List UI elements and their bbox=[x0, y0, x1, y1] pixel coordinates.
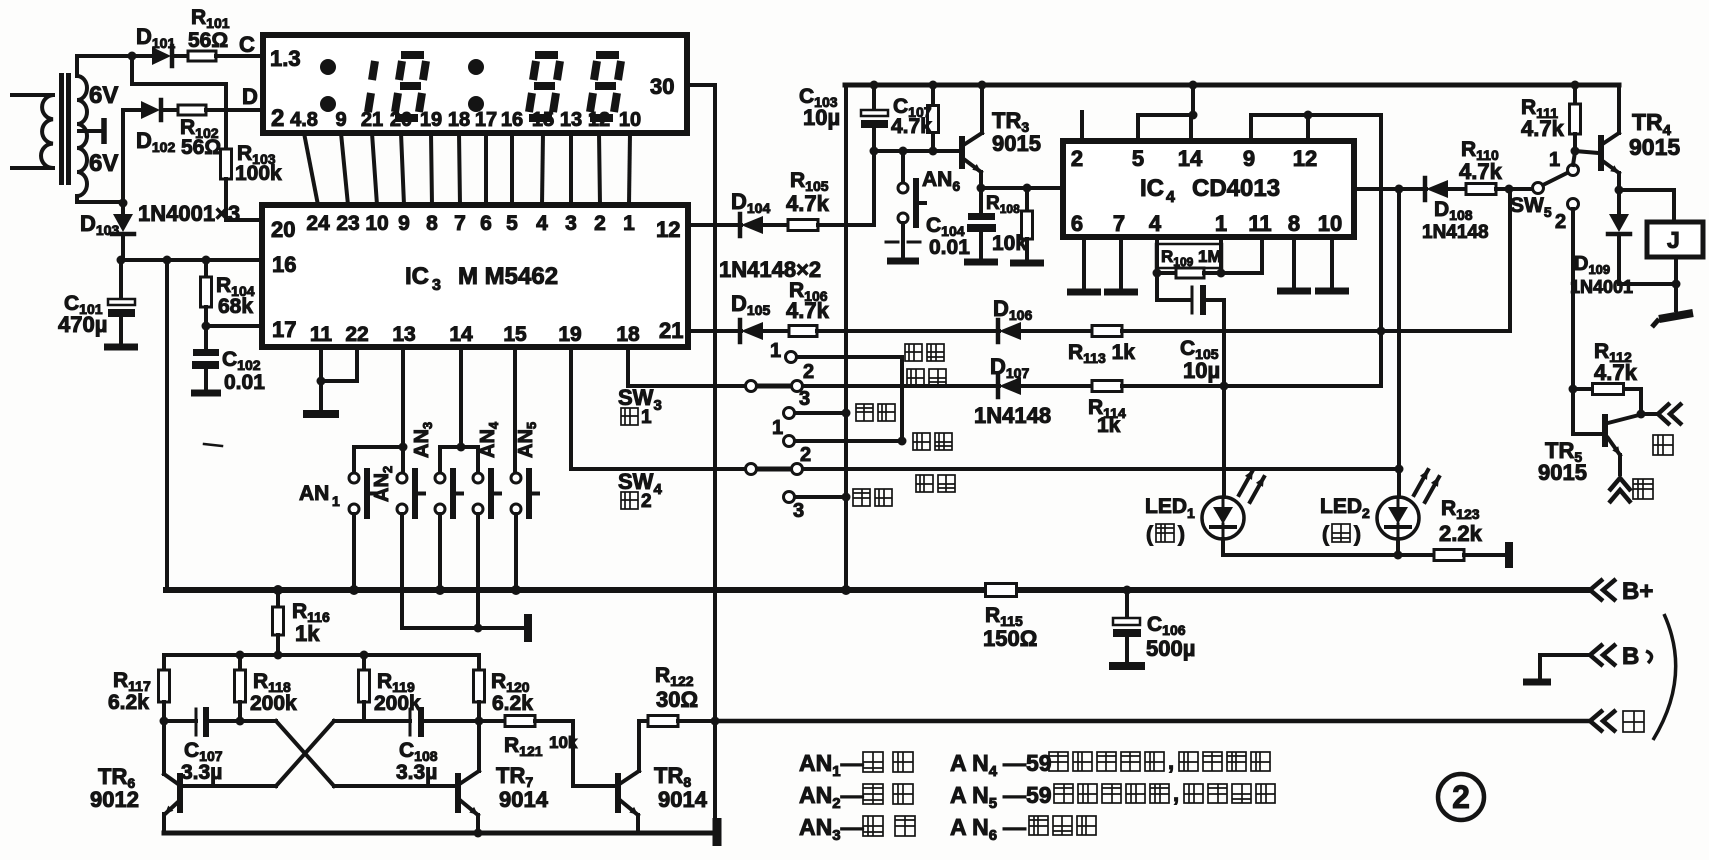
diode D106 bbox=[996, 320, 1001, 342]
wire SW5-2 down to R112 bbox=[1571, 209, 1575, 389]
label tu-xiao bbox=[905, 344, 922, 361]
wire pin30 vertical bus bbox=[713, 85, 717, 833]
node R110/SW5/lineB bbox=[1505, 185, 1514, 194]
wire pin11 bbox=[319, 347, 323, 381]
wire pin7 ground bbox=[1119, 237, 1123, 289]
big parenthesis bbox=[1653, 614, 1676, 740]
resistor R103 bbox=[221, 149, 232, 179]
node SW4-1 bbox=[898, 437, 907, 446]
resistor R101 bbox=[188, 51, 216, 61]
svg-text:56Ω: 56Ω bbox=[188, 29, 228, 52]
node on supply bus bbox=[842, 493, 851, 502]
SW4 arm bbox=[758, 467, 790, 472]
wire AN6 to ground bbox=[901, 223, 905, 240]
svg-text:6: 6 bbox=[1071, 211, 1083, 236]
label nao1 bbox=[621, 408, 638, 425]
svg-text:4.7k: 4.7k bbox=[1521, 116, 1565, 141]
pushbutton AN4 bbox=[473, 473, 483, 483]
wire SW3-1 to SW4-1 bbox=[900, 357, 904, 441]
capacitor C102 bbox=[204, 326, 208, 349]
display digit 8 (second) bbox=[535, 51, 558, 59]
resistor R105 bbox=[788, 220, 818, 231]
svg-text:(: ( bbox=[1322, 523, 1329, 546]
svg-text:100k: 100k bbox=[235, 162, 282, 185]
SW5 arm bbox=[1543, 173, 1567, 185]
wire to D101 bbox=[132, 54, 152, 58]
wire line B riser to SW5 node bbox=[1508, 189, 1512, 331]
svg-text:2: 2 bbox=[1071, 146, 1083, 171]
resistor R117 bbox=[162, 655, 166, 670]
svg-text:B: B bbox=[1622, 643, 1639, 670]
resistor R109 with label box bbox=[1156, 244, 1222, 268]
svg-text:19: 19 bbox=[558, 323, 581, 346]
label yun-xing bbox=[907, 369, 924, 386]
svg-text:1: 1 bbox=[623, 212, 635, 235]
svg-text:,: , bbox=[1168, 749, 1174, 774]
terminal zhen bbox=[1609, 478, 1631, 491]
LED2 arrows bbox=[1414, 470, 1428, 495]
svg-text:J: J bbox=[1667, 227, 1680, 253]
svg-text:4.7k: 4.7k bbox=[1594, 360, 1638, 385]
wire R103 to IC3 pin20 bbox=[224, 179, 228, 220]
svg-text:11: 11 bbox=[310, 323, 333, 346]
resistor R108 bbox=[1025, 188, 1029, 211]
svg-text:1: 1 bbox=[332, 493, 340, 509]
node R117 bottom bbox=[160, 717, 169, 726]
svg-text:1N4148: 1N4148 bbox=[1422, 222, 1489, 243]
svg-text:5: 5 bbox=[1132, 146, 1144, 171]
SW3 contact 3 bbox=[784, 408, 795, 419]
svg-text:14: 14 bbox=[1178, 146, 1203, 171]
IC U4 CD4013 bbox=[1063, 141, 1354, 237]
wire secondary top tap bbox=[75, 56, 79, 76]
pushbutton AN1 bbox=[349, 473, 359, 483]
svg-text:AN: AN bbox=[299, 482, 329, 505]
wire pin13 down to AN2 bbox=[401, 347, 405, 473]
svg-text:68k: 68k bbox=[218, 295, 253, 318]
pushbutton AN6 bbox=[901, 151, 905, 183]
diode D108 bbox=[1423, 178, 1428, 200]
SW4 contact 3 bbox=[784, 492, 795, 503]
svg-text:10: 10 bbox=[365, 212, 388, 235]
wire filament rail bbox=[715, 719, 1588, 724]
diode D104 bbox=[738, 214, 743, 236]
wire C-line jog down bbox=[130, 56, 134, 84]
svg-text:9014: 9014 bbox=[658, 787, 708, 812]
node TR5 collector bbox=[1637, 410, 1646, 419]
display colon dots left bbox=[320, 59, 336, 75]
resistor R118 bbox=[238, 655, 242, 670]
resistor R119 bbox=[362, 655, 366, 670]
node pin14 junction bbox=[457, 443, 466, 452]
svg-text:4.7k: 4.7k bbox=[1459, 159, 1503, 184]
wire D102-R102 bbox=[163, 108, 178, 112]
svg-text:): ) bbox=[1178, 523, 1185, 546]
terminal bar R123 bbox=[1505, 542, 1513, 568]
svg-text:(: ( bbox=[1146, 523, 1153, 546]
SW5 contact 1 bbox=[1568, 165, 1579, 176]
IC U3 MM5462 bbox=[262, 205, 688, 347]
wire B- to ground bbox=[1540, 653, 1588, 657]
wire line A from pin12 bbox=[688, 223, 741, 227]
svg-text:6.2k: 6.2k bbox=[108, 691, 149, 714]
node R112/TR5 base bbox=[1569, 385, 1578, 394]
label zhen bbox=[1633, 479, 1653, 499]
svg-text:IC: IC bbox=[1140, 175, 1164, 202]
wire TR3 emitter to IC4 bbox=[981, 186, 1063, 190]
capacitor C104 bbox=[979, 188, 983, 213]
supply rail to IC3 pin16 bbox=[121, 258, 262, 262]
terminal B+ bbox=[1590, 579, 1603, 601]
svg-text:): ) bbox=[1354, 523, 1361, 546]
diode D105 bbox=[738, 320, 743, 342]
wire LED2 anode bbox=[1397, 189, 1401, 497]
wire riser to TR3 base node bbox=[872, 151, 876, 225]
display digit 1 bbox=[372, 61, 375, 80]
svg-text:56Ω: 56Ω bbox=[181, 136, 221, 159]
svg-text:9015: 9015 bbox=[1538, 460, 1587, 485]
wire bottom rail bbox=[164, 831, 714, 836]
display digit 8 (first) bbox=[401, 51, 424, 59]
node pin11 junction bbox=[317, 377, 326, 386]
svg-text:16: 16 bbox=[272, 252, 296, 277]
svg-text:13: 13 bbox=[392, 323, 415, 346]
wire cross-coupling left bbox=[240, 719, 276, 723]
svg-text:3: 3 bbox=[799, 388, 810, 410]
svg-text:3: 3 bbox=[432, 277, 441, 294]
wire pin11-pin22 tie bbox=[321, 379, 357, 383]
node bbox=[474, 624, 483, 633]
wire secondary center tap bbox=[79, 129, 103, 133]
resistor R110 bbox=[1466, 184, 1496, 195]
node LED2 feed bbox=[1395, 185, 1404, 194]
svg-text:20: 20 bbox=[390, 109, 412, 131]
terminal fan bbox=[1641, 412, 1655, 416]
node TR4 emitter bbox=[1615, 186, 1624, 195]
svg-text:AN1—: AN1— bbox=[799, 750, 864, 780]
svg-text:1k: 1k bbox=[295, 621, 320, 646]
svg-text:500µ: 500µ bbox=[1146, 636, 1195, 661]
label fan bbox=[1653, 435, 1673, 455]
node on supply bus bbox=[842, 409, 851, 418]
resistor R112 bbox=[1573, 387, 1593, 391]
capacitor C106 bbox=[1123, 586, 1132, 595]
wire AN3 top link bbox=[438, 447, 442, 473]
svg-text:1N4001×3: 1N4001×3 bbox=[138, 201, 240, 226]
svg-text:AN3—: AN3— bbox=[799, 814, 864, 844]
wires buttons to B+ rail bbox=[352, 514, 356, 590]
wire pin22 bbox=[355, 347, 359, 381]
svg-text:1: 1 bbox=[641, 407, 652, 428]
node LED2/yunxing line bbox=[1395, 465, 1404, 474]
pushbutton AN3 bbox=[435, 473, 445, 483]
label zhi-nao 1 bbox=[856, 404, 873, 421]
svg-text:7: 7 bbox=[1113, 211, 1125, 236]
ground below relay bbox=[1674, 284, 1678, 310]
svg-text:18: 18 bbox=[616, 323, 640, 346]
svg-text:1: 1 bbox=[772, 417, 783, 439]
svg-text:10: 10 bbox=[1318, 211, 1342, 236]
label nao-xiao bbox=[913, 433, 930, 450]
svg-text:3: 3 bbox=[793, 500, 804, 522]
svg-text:18: 18 bbox=[448, 109, 470, 131]
wire R102 to display pin D bbox=[206, 108, 263, 112]
resistor R115 in B+ rail bbox=[986, 584, 1017, 597]
node: bottom tap junction bbox=[119, 199, 128, 208]
svg-text:13: 13 bbox=[560, 109, 582, 131]
svg-text:2: 2 bbox=[271, 105, 284, 132]
wire pin18 down bbox=[626, 347, 630, 386]
wire to IC3 pin17 bbox=[206, 324, 262, 328]
svg-text:10: 10 bbox=[619, 109, 641, 131]
wire LED1 anode bbox=[1222, 386, 1226, 497]
node relay/D109 bbox=[1672, 280, 1681, 289]
svg-text:3.3µ: 3.3µ bbox=[396, 761, 437, 784]
wire IC4 right to D108 bbox=[1354, 187, 1426, 191]
svg-text:30Ω: 30Ω bbox=[656, 687, 698, 712]
transformer T1 core bbox=[59, 73, 64, 185]
svg-text:D: D bbox=[242, 84, 258, 109]
svg-text:17: 17 bbox=[272, 317, 296, 342]
wire R101 to display pin C bbox=[216, 54, 263, 58]
svg-text:C: C bbox=[239, 32, 255, 57]
transistor TR3 bbox=[959, 136, 965, 169]
svg-text:M M5462: M M5462 bbox=[458, 263, 558, 290]
svg-text:21: 21 bbox=[361, 109, 383, 131]
wire AN2-AN4 common bbox=[402, 626, 528, 630]
node: top tap junction bbox=[128, 52, 137, 61]
transformer T1 primary winding bbox=[12, 93, 53, 97]
node pin30 bus joins bbox=[711, 717, 720, 726]
wire pin15 down to AN5 bbox=[513, 347, 517, 473]
capacitor C107 bbox=[164, 719, 196, 723]
svg-text:6.2k: 6.2k bbox=[492, 692, 533, 715]
svg-text:9014: 9014 bbox=[499, 787, 549, 812]
pushbutton AN5 bbox=[511, 473, 521, 483]
wire pin8 ground bbox=[1292, 237, 1296, 288]
diode D101 bbox=[152, 47, 171, 65]
svg-text:1: 1 bbox=[1215, 211, 1227, 236]
node C105/line C bbox=[1220, 382, 1229, 391]
wire pin19 down bbox=[569, 347, 573, 469]
resistor R116 bbox=[276, 590, 280, 607]
wire top supply rail bbox=[845, 83, 1619, 88]
wire riser to D102 bbox=[121, 110, 125, 202]
svg-text:1N4148×2: 1N4148×2 bbox=[719, 257, 821, 282]
diode D107 bbox=[996, 375, 1001, 397]
svg-text:2.2k: 2.2k bbox=[1439, 521, 1483, 546]
wire cross-coupling right bbox=[276, 721, 334, 786]
node R118 bottom bbox=[236, 717, 245, 726]
resistor R111 bbox=[1573, 85, 1577, 104]
svg-text:7: 7 bbox=[454, 212, 466, 235]
terminal B- bbox=[1590, 644, 1603, 666]
label nao2 bbox=[621, 492, 638, 509]
svg-text:20: 20 bbox=[271, 217, 295, 242]
stray mark dash bbox=[204, 444, 222, 446]
svg-text:CD4013: CD4013 bbox=[1192, 175, 1280, 202]
svg-text:5: 5 bbox=[506, 212, 518, 235]
svg-text:6V: 6V bbox=[89, 82, 118, 109]
svg-text:15: 15 bbox=[532, 109, 554, 131]
wire LED cathode line bbox=[1221, 539, 1225, 555]
display digit 8 (third) bbox=[596, 51, 619, 59]
svg-text:9: 9 bbox=[398, 212, 410, 235]
svg-text:4: 4 bbox=[1166, 189, 1175, 206]
display colon dots middle bbox=[468, 59, 484, 75]
svg-text:,: , bbox=[1173, 781, 1179, 806]
ground below C101 bbox=[104, 344, 138, 351]
node LED2 cathode bbox=[1394, 551, 1403, 560]
svg-text:1: 1 bbox=[1549, 149, 1560, 171]
node AN1/pin13 bbox=[399, 443, 408, 452]
wire pins 9/12 tie bbox=[1251, 113, 1381, 117]
wire pin14 down bbox=[459, 347, 463, 447]
svg-text:6: 6 bbox=[480, 212, 492, 235]
terminal bar bbox=[524, 614, 532, 642]
pushbutton AN2 bbox=[397, 473, 407, 483]
svg-text:4: 4 bbox=[536, 212, 548, 235]
ground below C102 bbox=[191, 390, 221, 397]
wire flip-flop reset bus bbox=[1379, 115, 1383, 386]
svg-text:12: 12 bbox=[656, 217, 680, 242]
node TR7 emitter bbox=[474, 829, 483, 838]
svg-text:4.7k: 4.7k bbox=[891, 115, 932, 138]
svg-text:21: 21 bbox=[659, 318, 683, 343]
resistor R106 bbox=[789, 326, 817, 337]
svg-text:—: — bbox=[1003, 814, 1026, 840]
svg-text:10µ: 10µ bbox=[803, 105, 840, 130]
label zhi-nao 2 bbox=[853, 489, 870, 506]
wire B+ rail bbox=[166, 587, 1588, 593]
SW3 contact 2 bbox=[792, 381, 803, 392]
node TR4 base bbox=[1571, 147, 1580, 156]
switch SW5 common bbox=[1533, 183, 1544, 194]
svg-text:10µ: 10µ bbox=[1183, 358, 1220, 383]
svg-text:4.8: 4.8 bbox=[290, 109, 318, 131]
svg-text:0.01: 0.01 bbox=[224, 371, 265, 394]
resistor R113 bbox=[1092, 326, 1122, 337]
capacitor C108 bbox=[334, 719, 410, 723]
resistor R121 bbox=[479, 719, 505, 723]
terminal ying bbox=[1590, 710, 1603, 732]
wire R112 to TR5 collector node bbox=[1639, 389, 1643, 414]
svg-text:17: 17 bbox=[475, 109, 497, 131]
wire pin6 ground bbox=[1082, 237, 1086, 289]
svg-text:1: 1 bbox=[770, 340, 781, 362]
wire TR3 base line bbox=[874, 149, 959, 153]
diode D109 bbox=[1617, 190, 1621, 214]
wire pin11 tie to pin1 bbox=[1221, 271, 1262, 275]
resistor R104 bbox=[204, 260, 208, 277]
svg-text:IC: IC bbox=[405, 263, 429, 290]
resistor R114 bbox=[1092, 381, 1122, 392]
LED display module bbox=[263, 35, 687, 133]
svg-text:15: 15 bbox=[503, 323, 527, 346]
svg-text:14: 14 bbox=[449, 323, 473, 346]
SW3 contact 1 bbox=[786, 352, 797, 363]
transformer T1 secondary winding bbox=[77, 76, 87, 196]
svg-text:9015: 9015 bbox=[1629, 134, 1680, 160]
wire SW5-1 to R111/TR4 base bbox=[1573, 152, 1575, 165]
wire multivibrator top rail bbox=[164, 653, 479, 657]
svg-text:3: 3 bbox=[565, 212, 577, 235]
SW4 contact 2 bbox=[792, 464, 803, 475]
svg-text:2: 2 bbox=[800, 444, 811, 466]
svg-text:12: 12 bbox=[588, 109, 610, 131]
transistor TR7 bbox=[455, 773, 461, 813]
svg-text:19: 19 bbox=[420, 109, 442, 131]
svg-text:2: 2 bbox=[803, 361, 814, 383]
svg-text:11: 11 bbox=[1248, 211, 1271, 236]
node R104/C102 bbox=[202, 322, 211, 331]
transistor TR8 bbox=[615, 773, 621, 813]
wire supply riser to B+ rail bbox=[165, 260, 169, 590]
svg-text:9012: 9012 bbox=[90, 787, 139, 812]
ground below AN6 bbox=[887, 258, 919, 265]
svg-text:10k: 10k bbox=[992, 232, 1027, 255]
svg-text:AN2—: AN2— bbox=[799, 782, 864, 812]
svg-text:B+: B+ bbox=[1622, 578, 1653, 605]
terminal bar bottom rail bbox=[713, 818, 722, 846]
transistor TR5 bbox=[1571, 389, 1575, 434]
svg-text:3.3µ: 3.3µ bbox=[181, 761, 222, 784]
svg-text:2: 2 bbox=[1452, 779, 1470, 815]
svg-text:24: 24 bbox=[306, 212, 330, 235]
capacitor C101 bbox=[119, 260, 123, 299]
ground below C106 bbox=[1109, 662, 1145, 670]
node TR3 base line bbox=[870, 147, 879, 156]
svg-text:4: 4 bbox=[1149, 211, 1162, 236]
svg-text:200k: 200k bbox=[250, 692, 297, 715]
wire supply bus vertical bbox=[844, 85, 848, 590]
svg-text:8: 8 bbox=[426, 212, 438, 235]
svg-text:1N4148: 1N4148 bbox=[974, 403, 1051, 428]
figure number 2 bbox=[1438, 774, 1484, 820]
wires AN2/AN4 to common stub bbox=[400, 514, 404, 628]
svg-text:4.7k: 4.7k bbox=[786, 298, 830, 323]
svg-text:0.01: 0.01 bbox=[929, 236, 970, 259]
ground B- bbox=[1523, 679, 1551, 686]
LED LED1 bbox=[1202, 497, 1244, 539]
resistor R120 bbox=[477, 655, 481, 670]
svg-text:—59: —59 bbox=[1003, 750, 1052, 776]
svg-text:12: 12 bbox=[1293, 146, 1317, 171]
transistor TR4 bbox=[1575, 151, 1598, 153]
relay J bbox=[1619, 188, 1674, 192]
resistor R102 bbox=[178, 105, 206, 115]
svg-text:2: 2 bbox=[594, 212, 606, 235]
wire R121 to TR8 base bbox=[571, 721, 575, 786]
svg-text:1.3: 1.3 bbox=[270, 46, 301, 71]
svg-text:30: 30 bbox=[650, 74, 674, 99]
svg-text:16: 16 bbox=[501, 109, 523, 131]
SW3 arm bbox=[758, 384, 790, 389]
wire D101-R101 bbox=[174, 54, 188, 58]
svg-text:22: 22 bbox=[345, 323, 368, 346]
svg-text:23: 23 bbox=[336, 212, 359, 235]
svg-text:200k: 200k bbox=[374, 692, 421, 715]
svg-text:1N4001: 1N4001 bbox=[1570, 277, 1633, 297]
node R120 bottom bbox=[475, 717, 484, 726]
resistor R122 bbox=[639, 719, 648, 723]
wire display pin30 bbox=[687, 83, 715, 87]
svg-text:9015: 9015 bbox=[992, 131, 1041, 156]
SW4 contact 1 bbox=[784, 436, 795, 447]
wire rail to pins 5/14 bbox=[1191, 85, 1195, 115]
svg-text:9: 9 bbox=[1243, 146, 1255, 171]
svg-text:470µ: 470µ bbox=[58, 312, 107, 337]
